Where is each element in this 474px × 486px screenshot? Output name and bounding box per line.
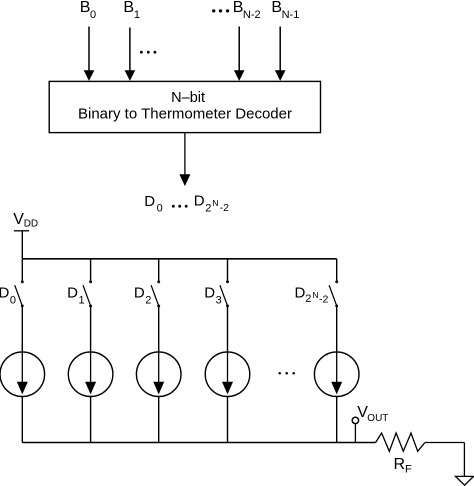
svg-text:0: 0 [90,9,96,21]
svg-text:D: D [194,193,205,210]
svg-text:OUT: OUT [367,413,388,424]
svg-text:0: 0 [157,203,163,215]
svg-text:-2: -2 [319,294,328,306]
svg-text:D: D [144,193,155,210]
svg-text:N-1: N-1 [282,9,300,21]
svg-text:B: B [123,0,134,16]
svg-text:3: 3 [216,295,222,307]
svg-text:B: B [271,0,282,16]
svg-text:D: D [0,285,10,302]
svg-text:D: D [204,285,215,302]
svg-text:N-2: N-2 [243,9,261,21]
svg-text:V: V [13,211,24,228]
svg-text:D: D [295,284,306,301]
svg-text:2: 2 [305,293,311,305]
svg-text:1: 1 [79,295,85,307]
svg-text:Binary to Thermometer Decoder: Binary to Thermometer Decoder [78,106,292,123]
svg-text:2: 2 [205,202,211,214]
svg-text:F: F [405,464,412,476]
svg-text:N: N [212,198,218,208]
svg-text:0: 0 [10,295,16,307]
svg-text:B: B [80,0,91,16]
svg-text:R: R [394,456,406,473]
svg-text:N: N [312,290,318,300]
svg-text:D: D [134,285,145,302]
svg-text:-2: -2 [220,202,229,214]
svg-text:B: B [233,0,244,16]
svg-text:D: D [67,285,78,302]
svg-text:N–bit: N–bit [171,90,205,106]
svg-text:2: 2 [145,295,151,307]
svg-text:1: 1 [134,9,140,21]
svg-text:DD: DD [24,219,38,230]
